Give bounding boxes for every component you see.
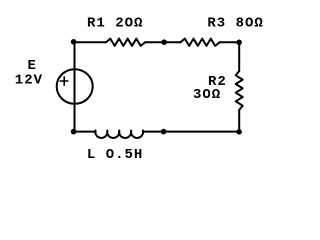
- svg-text:R1 2OΩ: R1 2OΩ: [87, 15, 143, 31]
- svg-text:R3 8OΩ: R3 8OΩ: [207, 15, 263, 31]
- svg-text:3OΩ: 3OΩ: [193, 87, 221, 103]
- svg-text:12V: 12V: [15, 72, 43, 88]
- svg-text:L O.5H: L O.5H: [87, 147, 143, 163]
